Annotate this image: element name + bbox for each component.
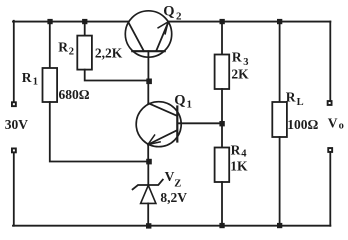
transistor Q1 base bar [176, 107, 178, 142]
node RL bottom junction [277, 223, 282, 228]
wire R2 bottom lead [85, 70, 149, 81]
terminal Vo positive [327, 100, 333, 106]
svg-text:1K: 1K [230, 158, 248, 173]
svg-text:V: V [328, 115, 338, 130]
svg-text:2: 2 [69, 47, 74, 58]
wire left input vertical [13, 21, 15, 101]
wire zener top lead [147, 162, 149, 185]
svg-text:2: 2 [176, 10, 182, 22]
svg-text:8,2V: 8,2V [160, 190, 187, 205]
wire left bottom vertical [13, 154, 15, 226]
transistor Q2 base bar [132, 50, 164, 52]
svg-text:1: 1 [33, 77, 38, 88]
svg-text:o: o [339, 121, 344, 132]
node R3 top junction [220, 19, 225, 24]
resistor R4 [215, 148, 230, 183]
svg-text:R: R [22, 70, 32, 85]
wire top rail right segment [168, 21, 330, 23]
svg-text:R: R [58, 40, 68, 55]
node divider tap junction [219, 121, 224, 126]
node zener bottom junction [146, 223, 151, 228]
node R4 bottom junction [219, 223, 224, 228]
terminal Vo negative [327, 147, 333, 153]
transistor Q2 emitter arrow [158, 22, 168, 34]
node Q2 base junction [146, 79, 152, 85]
transistor Q1 emitter line [148, 130, 177, 144]
resistor R3 [215, 55, 230, 90]
node RL top junction [277, 19, 282, 24]
resistor R2 [77, 36, 92, 70]
node R2 top junction [82, 19, 87, 24]
resistor R1 [43, 68, 58, 102]
wire right bottom vertical [329, 153, 331, 226]
terminal 30V negative [11, 148, 17, 154]
wire Q2 base lead [147, 51, 149, 81]
svg-text:100Ω: 100Ω [287, 117, 318, 132]
svg-text:1: 1 [187, 99, 193, 111]
wire R3 top lead [221, 22, 223, 55]
svg-text:R: R [231, 142, 241, 157]
svg-text:Z: Z [174, 178, 181, 189]
wire R1 bottom lead [50, 102, 147, 162]
wire R4 bottom lead [221, 182, 223, 226]
wire R1 top lead [49, 22, 51, 69]
svg-text:2,2K: 2,2K [95, 45, 123, 60]
transistor Q1 collector line [148, 103, 177, 116]
wire top rail left segment [13, 21, 129, 23]
zener diode VZ triangle [141, 185, 156, 203]
node R1 top junction [47, 19, 52, 24]
transistor Q1 emitter arrow [148, 135, 160, 145]
svg-text:Q: Q [163, 3, 174, 19]
wire R3 bottom lead [221, 89, 223, 123]
wire bottom rail [13, 225, 330, 227]
wire Q1 emitter lead [147, 145, 149, 162]
resistor RL [272, 102, 287, 137]
svg-text:R: R [232, 49, 242, 64]
svg-text:680Ω: 680Ω [59, 87, 90, 102]
wire RL top lead [279, 22, 281, 103]
svg-text:Q: Q [174, 93, 185, 109]
wire zener bottom lead [147, 203, 149, 225]
wire Q2 base to Q1 collector [147, 81, 149, 103]
wire R2 top lead [84, 22, 86, 36]
transistor Q1 base lead [178, 122, 220, 124]
wire RL bottom lead [279, 137, 281, 226]
wire R4 top lead [221, 123, 223, 147]
terminal 30V positive [11, 101, 17, 107]
transistor Q2 circle [125, 11, 171, 57]
node zener top junction [146, 159, 152, 165]
svg-text:2K: 2K [231, 66, 249, 81]
svg-text:L: L [297, 97, 304, 108]
transistor Q2 emitter line [156, 22, 168, 51]
svg-text:V: V [165, 169, 175, 184]
svg-text:R: R [286, 90, 296, 105]
svg-text:30V: 30V [5, 117, 29, 132]
zener diode VZ cathode bar [133, 180, 163, 190]
transistor Q2 collector line [128, 22, 143, 51]
wire right top vertical [329, 22, 331, 101]
transistor Q1 circle [136, 102, 181, 147]
